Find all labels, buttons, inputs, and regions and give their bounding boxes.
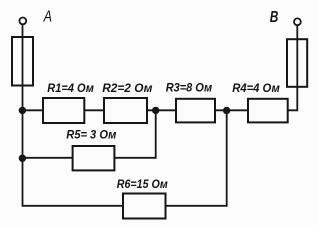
svg-text:B: B — [270, 9, 279, 26]
svg-text:A: A — [43, 8, 52, 25]
resistor R5 — [73, 146, 115, 170]
resistor R2 — [104, 98, 147, 123]
resistor R1 — [43, 98, 84, 123]
wire: left column to R5 — [22, 157, 73, 159]
resistor R4 — [248, 99, 288, 123]
svg-text:R2=2 Ом: R2=2 Ом — [102, 81, 152, 95]
wire: R5 right up to node between R2 and R3 — [114, 110, 155, 158]
wire: node A to R1 — [22, 109, 43, 111]
wire: bottom-left corner to R6 — [22, 205, 123, 207]
resistor R3 — [176, 99, 215, 123]
svg-text:R4=4 Ом: R4=4 Ом — [232, 81, 280, 95]
junction node at A column on main row — [19, 107, 26, 114]
unlabeled element (fuse-style rectangle) below terminal A — [12, 37, 33, 86]
junction node between R2 and R3 — [152, 107, 159, 114]
junction node at left column on R5 row — [19, 155, 26, 162]
wire: R2 to R3 — [147, 109, 176, 111]
terminal B — [294, 18, 301, 25]
svg-text:R6=15 Ом: R6=15 Ом — [117, 177, 168, 191]
terminal A — [19, 18, 26, 25]
svg-text:R3=8 Ом: R3=8 Ом — [166, 80, 213, 94]
wire: R1 to R2 — [84, 109, 104, 111]
wire: terminal A down through left element to bottom-left corner — [22, 25, 24, 206]
resistor R6 — [123, 194, 166, 219]
svg-text:R1=4 Ом: R1=4 Ом — [47, 81, 94, 95]
wire: R6 right up to node between R3 and R4 — [166, 110, 227, 206]
junction node between R3 and R4 — [223, 107, 230, 114]
wire: terminal B down through right element to main row — [288, 26, 298, 111]
svg-text:R5= 3 Ом: R5= 3 Ом — [66, 128, 116, 142]
unlabeled element (fuse-style rectangle) below terminal B — [287, 39, 307, 87]
wire: R3 to R4 — [215, 109, 248, 111]
